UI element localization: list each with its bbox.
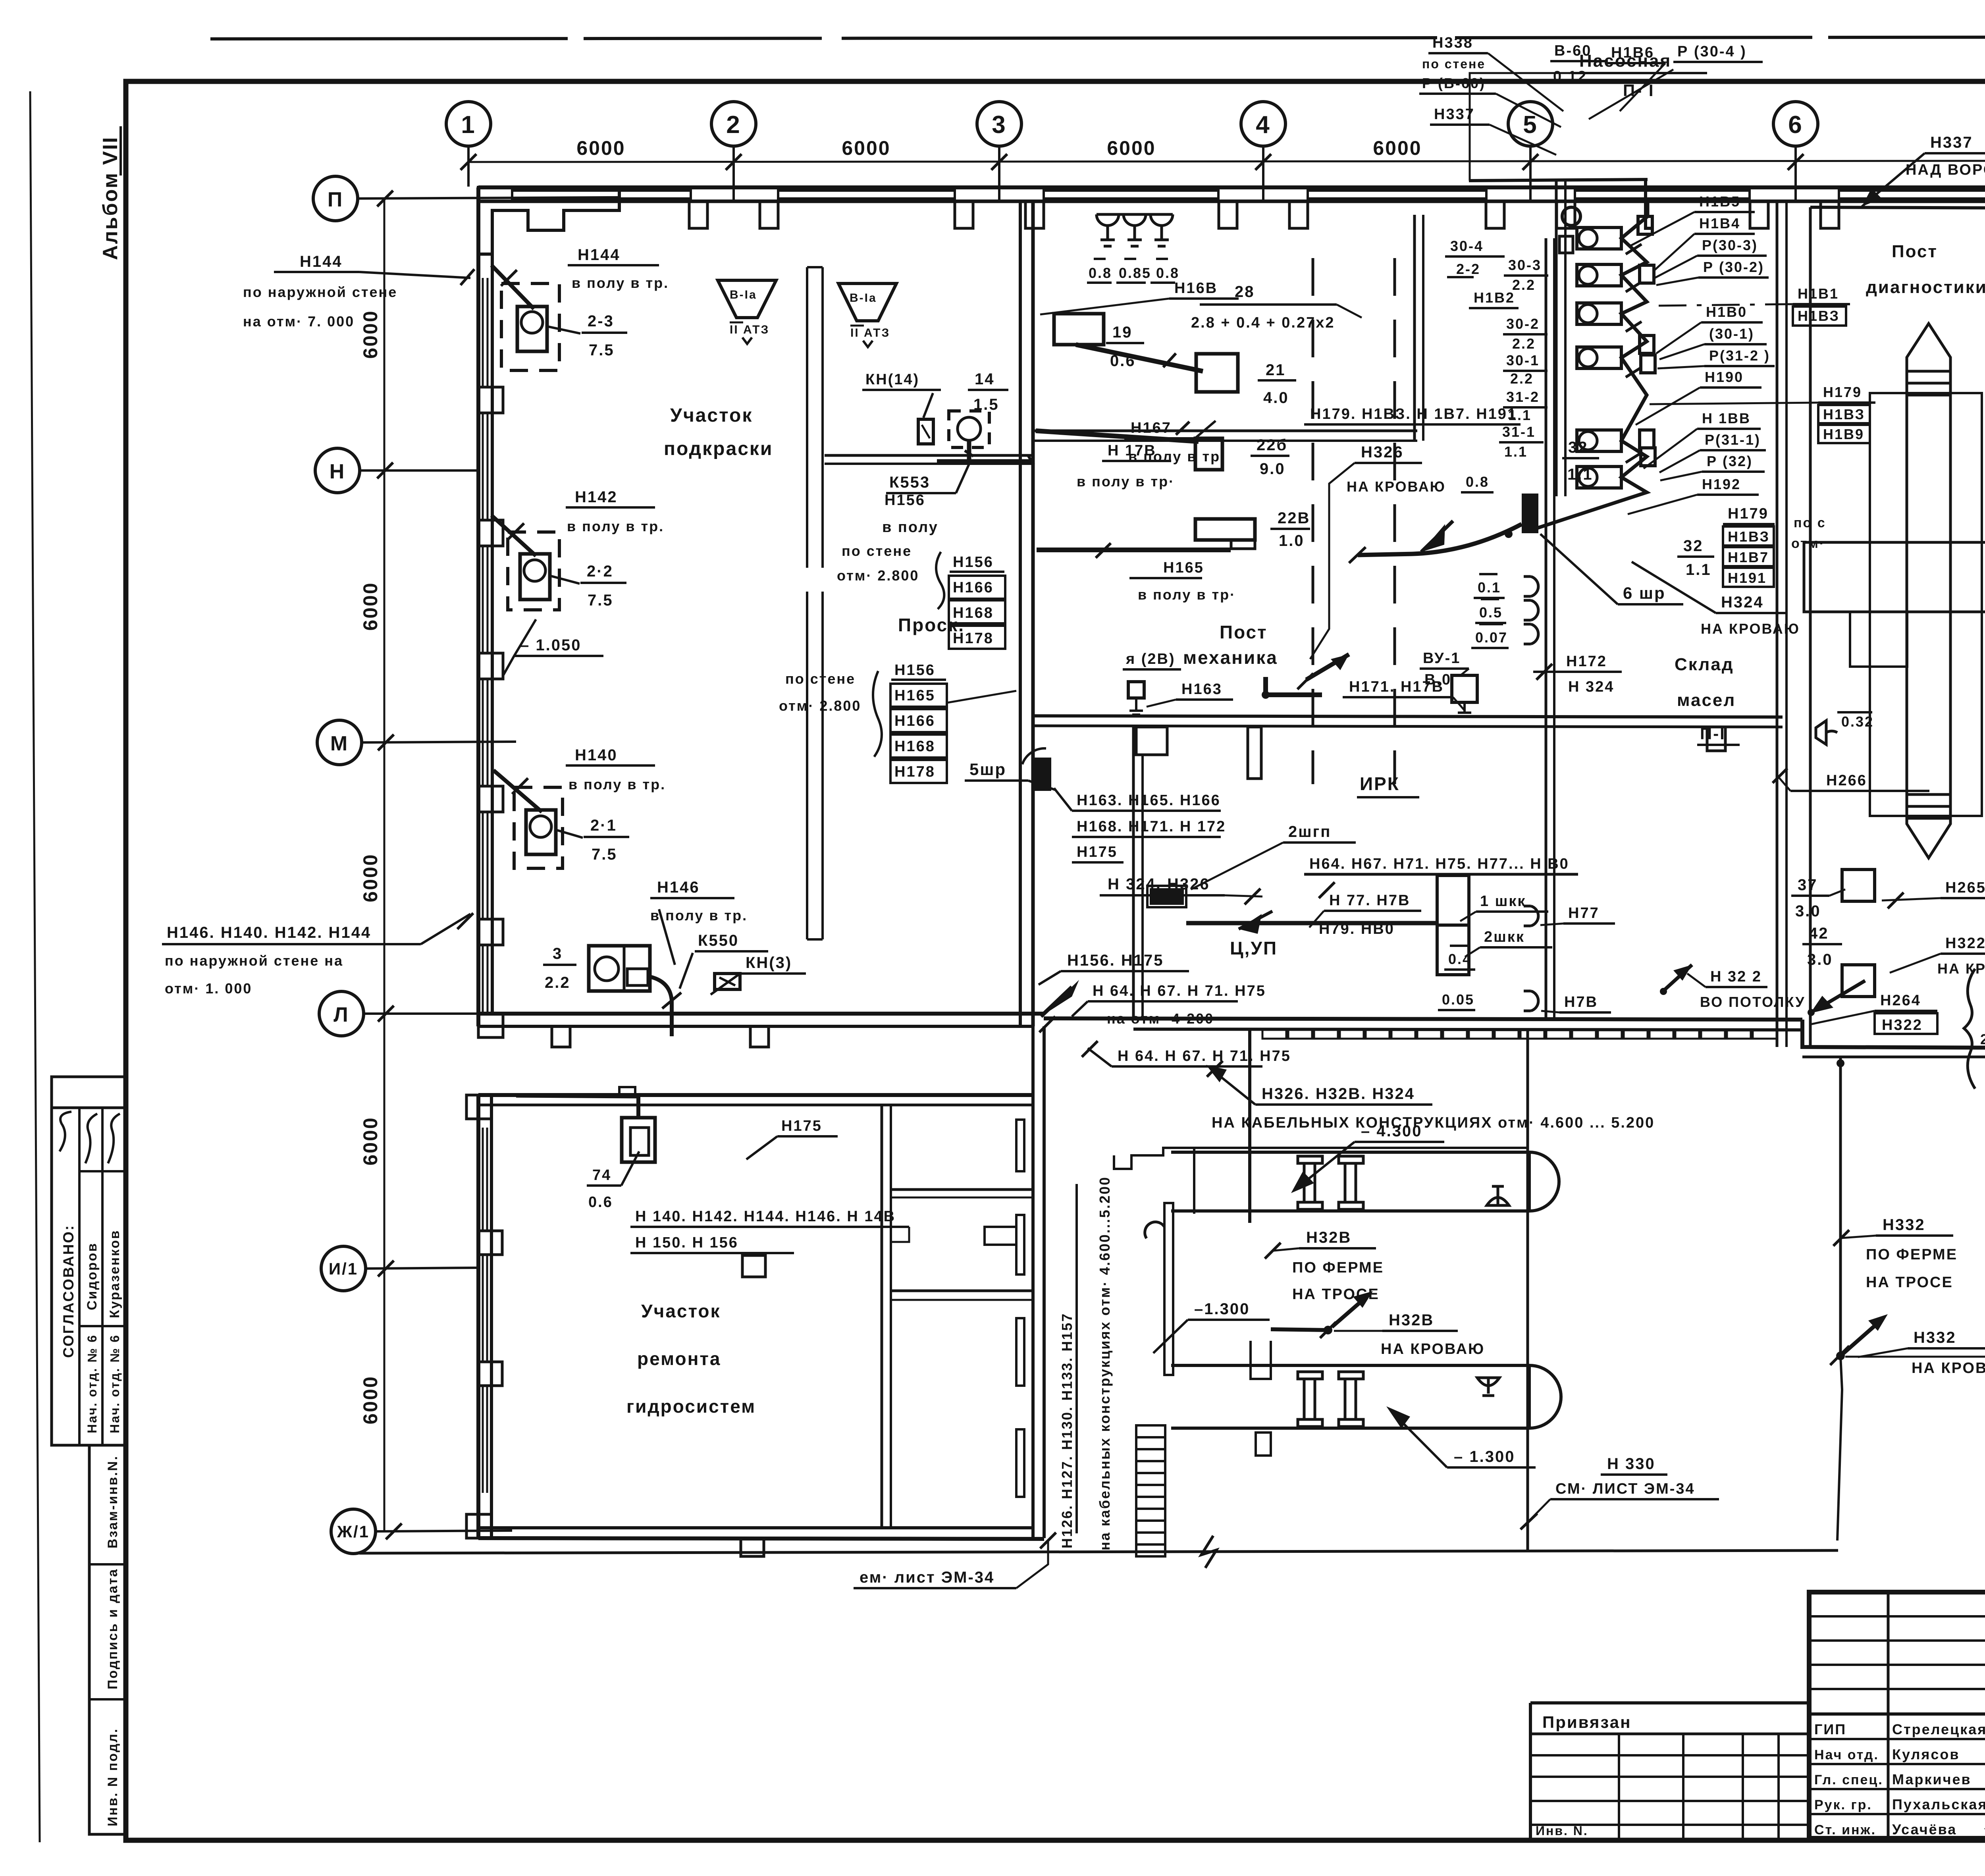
title block small rows [1809,1615,1985,1618]
row leader lines [358,197,619,1531]
svg-text:Н179: Н179 [1728,505,1769,522]
svg-text:32: 32 [1683,537,1704,555]
svg-text:Р(31-1): Р(31-1) [1705,432,1761,448]
svg-text:НА КРОВАЮ: НА КРОВАЮ [1347,478,1446,495]
svg-text:в полу в тр.: в полу в тр. [567,518,664,534]
crane dashed lines [1312,258,1314,784]
svg-text:Н168: Н168 [894,738,935,755]
svg-text:2шгп: 2шгп [1288,823,1331,841]
svg-text:5: 5 [1523,111,1538,139]
column axis circles 1-7 [446,102,1985,146]
svg-text:0.07: 0.07 [1475,629,1508,646]
svg-text:Куразенков: Куразенков [107,1230,122,1318]
svg-text:30-1: 30-1 [1506,352,1540,368]
svg-text:ИРК: ИРК [1360,773,1400,794]
svg-text:2.2: 2.2 [545,974,570,991]
svg-text:Н156: Н156 [894,662,935,679]
svg-text:Н1В2: Н1В2 [1474,289,1515,306]
svg-text:Н146: Н146 [657,879,700,896]
svg-text:Н156: Н156 [953,554,994,571]
svg-text:Н324: Н324 [1721,594,1764,611]
svg-text:Инв. N подл.: Инв. N подл. [105,1728,120,1826]
svg-text:2-2: 2-2 [1456,261,1480,277]
svg-text:Н1В4: Н1В4 [1699,215,1740,231]
svg-text:6: 6 [1788,111,1803,139]
svg-text:СМ· ЛИСТ ЭМ-34: СМ· ЛИСТ ЭМ-34 [1555,1481,1695,1497]
svg-text:в полу в тр.: в полу в тр. [650,907,748,924]
svg-text:масел: масел [1677,690,1736,710]
svg-text:Н192: Н192 [1702,476,1741,492]
machine 2-3 dashed enclosure [501,283,559,370]
svg-text:Н142: Н142 [575,488,618,506]
svg-text:7.5: 7.5 [592,846,617,863]
svg-text:Н126. Н127. Н130. Н133. Н157: Н126. Н127. Н130. Н133. Н157 [1059,1313,1075,1548]
svg-text:ВО ПОТОЛКУ: ВО ПОТОЛКУ [1700,994,1806,1010]
svg-text:Н322: Н322 [1945,935,1985,952]
svg-text:3: 3 [553,945,563,962]
svg-text:Н326. Н32В. Н324: Н326. Н32В. Н324 [1262,1085,1415,1103]
svg-text:НА КРОВАЮ: НА КРОВАЮ [1701,621,1800,637]
machine 2-1 [514,787,563,868]
svg-text:Н1В5: Н1В5 [1699,193,1740,210]
svg-text:отм· 2.800: отм· 2.800 [779,698,861,714]
svg-text:НА КРОВАЮ: НА КРОВАЮ [1937,960,1985,977]
svg-text:Р(30-3): Р(30-3) [1702,237,1758,253]
svg-text:Участок: Участок [641,1301,721,1321]
svg-text:II АТЗ: II АТЗ [850,326,890,339]
tank 2 lower [1171,1365,1561,1428]
svg-text:2.2: 2.2 [1512,277,1536,293]
svg-text:Н1ВЗ: Н1ВЗ [1798,308,1840,324]
svg-text:30-4: 30-4 [1450,238,1484,254]
left annex table [1530,1701,1809,1704]
spray booth partition strip [807,267,823,939]
svg-text:2шкк: 2шкк [1484,929,1525,945]
svg-text:Н16В: Н16В [1174,280,1218,297]
svg-text:Н266: Н266 [1826,772,1867,789]
svg-text:Стрелецкая: Стрелецкая [1892,1721,1985,1737]
tank supports [1298,1156,1363,1427]
svg-text:Н 1ВВ: Н 1ВВ [1702,410,1751,426]
cable from 6ShR to wall [1358,524,1522,555]
left label column [1450,238,1542,490]
svg-text:в полу в тр·: в полу в тр· [1077,473,1175,490]
svg-text:0.8: 0.8 [1156,265,1179,281]
svg-text:Н191: Н191 [1728,570,1767,586]
wall under mechanic post [1033,430,1417,432]
svg-text:Н 330: Н 330 [1607,1455,1655,1473]
svg-text:Н 77. Н7В: Н 77. Н7В [1329,892,1410,909]
horizontal dimension line [468,161,1985,162]
svg-text:Н179. Н1ВЗ. Н 1В7. Н191: Н179. Н1ВЗ. Н 1В7. Н191 [1310,406,1517,422]
svg-text:на отм· 7. 000: на отм· 7. 000 [243,313,355,330]
svg-text:отм· 1. 000: отм· 1. 000 [165,980,252,997]
pump B-60 circle [1562,207,1580,226]
svg-text:М: М [330,732,349,755]
svg-text:по стене: по стене [785,671,856,687]
ground line below lower building [359,1550,1838,1553]
svg-text:Инв. N.: Инв. N. [1536,1824,1588,1838]
equipment 19 [1054,314,1104,345]
svg-text:в полу в тр·: в полу в тр· [1138,586,1236,603]
svg-text:31-1: 31-1 [1502,424,1536,440]
wall lamps oil store [1524,576,1538,644]
svg-text:2: 2 [726,111,741,139]
svg-text:Н1В9: Н1В9 [1823,426,1864,442]
svg-text:Н178: Н178 [894,764,935,780]
svg-text:Н1В1: Н1В1 [1798,285,1839,302]
svg-text:4.0: 4.0 [1263,389,1289,407]
svg-text:И/1: И/1 [329,1259,358,1278]
svg-text:механика: механика [1183,647,1278,668]
mid building bottom wall [1044,1018,1802,1020]
loudspeaker symbol and 0.32 [1816,721,1837,744]
svg-text:6 шр: 6 шр [1623,584,1666,602]
svg-text:НА КРОВАЮ: НА КРОВАЮ [1912,1360,1985,1377]
svg-text:КН(3): КН(3) [746,954,792,972]
svg-text:К553: К553 [889,474,930,491]
svg-text:Пост: Пост [1220,622,1268,642]
svg-text:Н172: Н172 [1566,653,1607,670]
svg-text:Н: Н [330,460,346,483]
svg-text:отм· 2.800: отм· 2.800 [837,567,919,584]
svg-text:0.12: 0.12 [1553,68,1587,85]
svg-text:7.5: 7.5 [588,592,613,609]
svg-text:2·1: 2·1 [590,817,617,834]
dimension tick slashes [461,154,1985,170]
svg-text:1.1: 1.1 [1508,407,1532,423]
title block outer [1809,1592,1985,1838]
bay right boundary line [1526,1030,1529,1550]
svg-text:(30-1): (30-1) [1709,326,1754,342]
vertical dimension line [384,199,385,1531]
svg-text:Н7В: Н7В [1564,994,1598,1010]
svg-text:74: 74 [592,1167,611,1184]
svg-text:9.0: 9.0 [1260,460,1285,478]
tank vent symbols [1487,1186,1509,1205]
ceiling lamps row [1097,214,1173,246]
svg-text:6000: 6000 [359,310,382,359]
lower building inner wall [881,1105,883,1528]
svg-text:диагностики: диагностики [1866,278,1985,297]
sheet trim line left [30,91,40,1842]
svg-text:37: 37 [1798,876,1818,894]
svg-text:–1.300: –1.300 [1194,1300,1250,1318]
central dividing wall lower passage [1031,1026,1035,1538]
svg-text:3.0: 3.0 [1795,902,1821,920]
svg-text:Н168. Н171. Н 172: Н168. Н171. Н 172 [1077,818,1226,835]
svg-text:Н 64. Н 67. Н 71. Н75: Н 64. Н 67. Н 71. Н75 [1118,1048,1291,1064]
svg-text:Н322: Н322 [1882,1017,1923,1033]
svg-text:ПО ФЕРМЕ: ПО ФЕРМЕ [1292,1259,1384,1276]
span dimensions 6000 [576,137,1422,159]
svg-text:Н156. Н175: Н156. Н175 [1067,952,1164,969]
svg-text:22В: 22В [1278,509,1310,527]
svg-text:ем· лист ЭМ-34: ем· лист ЭМ-34 [860,1569,994,1586]
svg-text:6000: 6000 [1373,137,1422,159]
N163 N165 N166 stack [1077,792,1226,860]
svg-text:Нач отд.: Нач отд. [1814,1747,1879,1762]
left wall window strips [483,278,488,1014]
cable line to roof right bay [1839,1057,1842,1356]
svg-text:7.5: 7.5 [589,341,615,359]
diagnostics room inner walls [1809,207,1812,1047]
svg-text:Н 17В: Н 17В [1108,442,1156,459]
svg-text:на отм· 4·200: на отм· 4·200 [1107,1010,1214,1027]
svg-text:0.1: 0.1 [1478,579,1501,596]
svg-text:Ц,УП: Ц,УП [1230,938,1278,958]
svg-text:подкраски: подкраски [664,438,773,459]
svg-text:2.8 + 0.4 + 0.27x2: 2.8 + 0.4 + 0.27x2 [1191,314,1335,331]
svg-text:Рук. гр.: Рук. гр. [1814,1797,1872,1812]
svg-text:2·2: 2·2 [587,563,613,580]
svg-text:6000: 6000 [576,137,625,159]
column stems [468,146,1985,202]
N165 cable & long equipment [1037,548,1231,552]
svg-text:Ж/1: Ж/1 [337,1522,370,1541]
title block left table verticals [1887,1592,1890,1838]
left exterior wall [476,187,480,1026]
svg-text:Н 64. Н 67. Н 71. Н75: Н 64. Н 67. Н 71. Н75 [1093,983,1266,999]
row Л wall bottom of upper-left hall [478,1012,1044,1016]
lower-left building bottom wall [478,1526,1033,1529]
top-left corner wall piece [478,187,619,254]
svg-text:6000: 6000 [359,853,382,902]
svg-text:по наружной стене на: по наружной стене на [165,952,343,969]
left wall piers [478,387,503,945]
svg-text:Н338: Н338 [1432,35,1473,51]
svg-text:по стене: по стене [842,543,912,559]
svg-text:Н190: Н190 [1705,369,1744,385]
svg-text:по стене: по стене [1422,57,1486,71]
svg-text:31-2: 31-2 [1506,389,1540,405]
svg-text:Н264: Н264 [1880,992,1921,1009]
svg-text:– 1.050: – 1.050 [520,636,581,654]
svg-text:1: 1 [461,111,476,139]
svg-text:Р (32): Р (32) [1707,453,1753,469]
svg-text:Взам-инв.N.: Взам-инв.N. [105,1455,120,1548]
svg-text:4: 4 [1256,111,1270,139]
top wall pier stubs [689,201,1985,228]
diagnostics pit outer [1870,393,1982,816]
svg-text:Н171. Н17В: Н171. Н17В [1349,679,1444,695]
svg-text:6000: 6000 [1107,137,1156,159]
svg-text:П: П [328,188,343,211]
svg-text:Нач. отд. № 6: Нач. отд. № 6 [108,1334,122,1433]
SU room dividers [891,1188,1033,1191]
signature squiggles [85,1114,97,1163]
floor channel hatch band [1262,1030,1777,1039]
svg-text:1.5: 1.5 [973,396,999,413]
svg-text:Усачёва: Усачёва [1892,1821,1957,1837]
svg-text:22б: 22б [1257,436,1287,454]
ventilation symbol 1 [718,280,776,318]
break mark [1201,1536,1216,1568]
staircase [1136,1425,1165,1556]
starters [1638,216,1655,466]
svg-text:на кабельных конструкциях отм: на кабельных конструкциях отм· 4.600...5… [1097,1176,1113,1550]
svg-text:Привязан: Привязан [1542,1713,1631,1731]
svg-text:Подпись и дата: Подпись и дата [105,1568,120,1689]
svg-text:Нач. отд. № 6: Нач. отд. № 6 [85,1334,99,1433]
hydraulics repair bay inner equipment [622,1118,655,1162]
svg-text:Н64. Н67. Н71. Н75. Н77... Н В: Н64. Н67. Н71. Н75. Н77... Н В0 [1309,856,1569,872]
svg-text:Н77: Н77 [1568,905,1600,922]
top wall window band rects [512,191,1985,199]
top exterior wall row П [478,185,1985,189]
cable 19 to 21 [1076,345,1203,371]
svg-text:Проск.: Проск. [898,615,965,635]
svg-text:Н332: Н332 [1914,1329,1956,1346]
svg-text:Н 140. Н142. Н144. Н146. Н 14В: Н 140. Н142. Н144. Н146. Н 14В [635,1208,896,1225]
ShKK cabinets [1437,875,1469,925]
svg-text:0.8: 0.8 [1466,474,1489,490]
svg-text:2.800: 2.800 [1980,1031,1985,1047]
svg-text:0.85: 0.85 [1119,265,1151,281]
stamp dividers [78,1108,81,1445]
svg-text:НА КАБЕЛЬНЫХ КОНСТРУКЦИЯХ: НА КАБЕЛЬНЫХ КОНСТРУКЦИЯХ отм· 4.600 ...… [1212,1114,1655,1131]
courtyard wall below TSUP [1248,1030,1251,1223]
svg-text:2.2: 2.2 [1512,335,1536,352]
svg-text:В-60: В-60 [1554,42,1592,59]
svg-text:Н1В6: Н1В6 [1611,44,1654,61]
top torn ruler dashed line [210,37,1985,39]
vertical span dimensions 6000 [359,310,382,1424]
row tick slashes [377,191,402,1539]
svg-text:6000: 6000 [359,1116,382,1165]
svg-text:ПО ФЕРМЕ: ПО ФЕРМЕ [1866,1246,1958,1263]
svg-text:0.4: 0.4 [1448,951,1472,967]
svg-text:Н144: Н144 [578,246,621,264]
TSUP cable [1186,921,1436,925]
svg-text:Н332: Н332 [1883,1216,1925,1234]
svg-text:0.5: 0.5 [1479,604,1503,621]
svg-text:1 шкк: 1 шкк [1480,893,1526,910]
row axis circles [313,176,376,1554]
left margin stamp column [52,1077,126,1108]
central dividing wall upper [1019,201,1022,1026]
svg-text:0.8: 0.8 [1089,265,1112,281]
bent cable in mekhanika [1266,677,1322,695]
svg-text:я (2В): я (2В) [1125,651,1176,667]
svg-text:КН(14): КН(14) [865,371,919,388]
svg-text:Пухальская: Пухальская [1892,1796,1985,1812]
lower-left building left wall [476,1095,480,1538]
right label column [1699,193,1770,492]
svg-text:по с: по с [1794,515,1826,530]
svg-text:Склад: Склад [1675,655,1734,674]
svg-text:Н175: Н175 [1077,844,1118,860]
svg-text:Н1ВЗ: Н1ВЗ [1728,528,1770,545]
svg-text:6000: 6000 [359,582,382,630]
svg-text:Н1ВЗ: Н1ВЗ [1823,406,1865,422]
svg-text:Р (В-60): Р (В-60) [1422,75,1486,91]
svg-text:1.1: 1.1 [1504,443,1528,460]
svg-text:Н 150. Н 156: Н 150. Н 156 [635,1234,738,1251]
svg-text:Н265: Н265 [1945,879,1985,896]
svg-text:2.2: 2.2 [1510,370,1534,387]
svg-text:Н175: Н175 [781,1118,822,1134]
svg-text:Альбом VII: Альбом VII [99,136,122,260]
IRK top wall [1033,716,1783,717]
svg-text:0.6: 0.6 [588,1194,613,1211]
partition south of paint area [825,454,1033,457]
svg-text:Н165: Н165 [894,687,935,704]
svg-text:в полу в тр.: в полу в тр. [572,275,669,291]
svg-text:3.0: 3.0 [1807,951,1833,968]
pumps [1577,228,1621,488]
svg-text:Н167: Н167 [1131,420,1172,436]
svg-text:ВУ-1: ВУ-1 [1423,650,1461,667]
svg-text:Н165: Н165 [1163,559,1204,576]
svg-text:Н163. Н165. Н166: Н163. Н165. Н166 [1077,792,1221,809]
svg-text:30-3: 30-3 [1508,257,1542,273]
svg-text:СОГЛАСОВАНО:: СОГЛАСОВАНО: [60,1224,77,1358]
mechanic post right wall [1413,215,1416,441]
svg-text:П-I: П-I [1700,724,1726,743]
oil store left wall [1545,238,1548,1018]
svg-text:Гл. спец.: Гл. спец. [1814,1772,1883,1787]
svg-text:Н166: Н166 [953,579,994,596]
svg-text:Пост: Пост [1892,242,1938,261]
svg-text:Р (30-4 ): Р (30-4 ) [1677,43,1747,60]
svg-text:Р(31-2 ): Р(31-2 ) [1709,347,1770,364]
svg-text:28: 28 [1235,283,1255,301]
cable drop to equipment [636,1096,640,1119]
svg-text:6000: 6000 [842,137,890,159]
svg-text:отм·: отм· [1791,536,1825,551]
diagnostics pit inner trench [1907,324,1950,858]
svg-text:42: 42 [1809,925,1829,942]
pump feeder zigzag cable [1537,202,1648,528]
tank1 left flange [1164,1203,1173,1375]
svg-text:Н166: Н166 [894,713,935,729]
svg-text:2-3: 2-3 [588,312,614,330]
svg-text:НА ТРОСЕ: НА ТРОСЕ [1866,1274,1953,1291]
svg-text:Н163: Н163 [1181,681,1222,698]
svg-text:Н1В0: Н1В0 [1706,304,1747,320]
ventilation symbol 2 [838,283,896,321]
svg-text:Н179: Н179 [1823,384,1862,400]
svg-text:ремонта: ремонта [637,1348,721,1369]
svg-text:по наружной стене: по наружной стене [243,284,397,300]
svg-text:5шр: 5шр [969,760,1006,779]
pump room left wall [1555,181,1558,496]
svg-text:в полу в тр.: в полу в тр. [569,776,666,792]
svg-text:30-2: 30-2 [1506,316,1540,332]
cable to machine 2-3 [491,265,534,309]
svg-text:Н144: Н144 [300,253,343,270]
tank 1 upper [1171,1152,1559,1211]
washer machine [589,946,650,991]
6ShR shield [1522,494,1538,533]
N178 cable & equipment [1036,431,1199,442]
svg-text:1.0: 1.0 [1279,532,1305,549]
equipment 21 [1196,354,1238,392]
svg-text:Н326: Н326 [1361,443,1404,461]
machine 2-2 [508,532,559,610]
svg-text:Н337: Н337 [1930,134,1973,151]
tanks area left platform [1114,1148,1528,1169]
svg-text:Н146. Н140. Н142. Н144: Н146. Н140. Н142. Н144 [167,924,371,941]
svg-text:1.1: 1.1 [1686,561,1711,578]
svg-text:Маркичев: Маркичев [1892,1771,1972,1787]
lower-left building top wall [478,1093,1033,1097]
svg-text:6000: 6000 [359,1375,382,1424]
svg-text:Н337: Н337 [1434,106,1475,123]
svg-text:Кулясов: Кулясов [1892,1746,1960,1762]
svg-text:Н1В7: Н1В7 [1728,549,1769,565]
